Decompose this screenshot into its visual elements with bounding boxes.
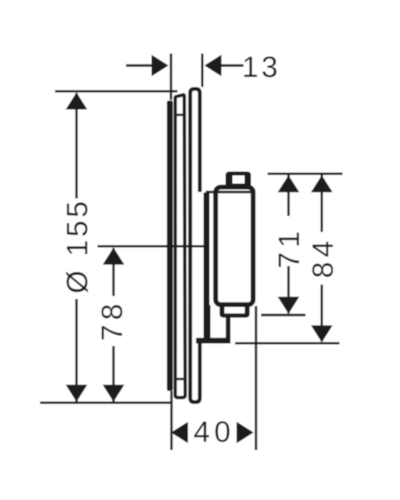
dim O155 top arrowhead (66, 93, 88, 110)
dim 71 top arrowhead (278, 175, 300, 192)
handle body (outlined box) (216, 187, 254, 304)
front sleeve (outlined box, right edge interrupted behind handle) (190, 89, 200, 402)
dim 40 left arrowhead (171, 422, 188, 444)
dim 40 right extension line (255, 306, 257, 450)
dim O155 bottom arrowhead (66, 385, 88, 402)
dim 84 bottom arrowhead (311, 325, 333, 342)
dim 71 bottom extension line (261, 314, 306, 316)
cartridge sleeve (solid bar behind handle) (204, 193, 210, 311)
dim 13 right arrowhead (204, 55, 221, 77)
handle bottom tab notch (224, 307, 244, 314)
label Ø 155 (66, 202, 88, 292)
dim 84 top arrowhead (311, 175, 333, 192)
dim 71 line upper segment (287, 175, 289, 216)
wall plate back disc (solid bar) (167, 101, 173, 392)
dim 78 line upper segment (112, 248, 114, 296)
label 84 (312, 242, 333, 277)
handle top tab (226, 172, 252, 188)
dim 78 line lower segment (112, 346, 114, 402)
dim 13 left arrowhead (152, 55, 169, 77)
dim 71 bottom arrowhead (278, 297, 300, 314)
dim 78 center extension line (98, 245, 169, 247)
dim O155 top extension line (55, 90, 178, 92)
dim 84 line upper segment (321, 175, 323, 232)
dim 78 bottom arrowhead (103, 385, 125, 402)
dim 40 left extension line (170, 391, 172, 450)
wall plate body (outlined escutcheon side profile) (175, 95, 185, 398)
dim O155 bottom extension line (40, 402, 172, 404)
cartridge bottom edge bar (196, 338, 230, 344)
dim 13 right tail line (221, 64, 244, 66)
label 78 (101, 305, 122, 340)
handle inner top line (206, 191, 252, 194)
dim 13 left extension line (170, 54, 172, 101)
dim O155 line lower segment (75, 299, 77, 402)
wall plate inner tick top (176, 114, 184, 116)
dim 13 right extension line (201, 54, 203, 88)
dim 40 right arrowhead (237, 422, 254, 444)
dim 84 bottom extension line (235, 342, 340, 344)
label 13 (244, 56, 276, 77)
dim 13 left tail line (126, 64, 152, 66)
handle top tab notch (233, 176, 245, 184)
cartridge bottom right descender (226, 313, 231, 343)
label 71 (279, 233, 299, 267)
wall plate inner tick bottom (176, 378, 185, 380)
handle bottom tab (220, 303, 250, 318)
cartridge lower part below handle (204, 305, 211, 344)
dim O155 line upper segment (75, 93, 77, 199)
center tick overlay across plate (168, 245, 204, 247)
dim 84 line lower segment (321, 285, 323, 342)
dim 78 top arrowhead (103, 248, 125, 265)
dim 71/84 top extension line (268, 173, 343, 175)
label 40 (194, 421, 229, 442)
dim 71 line lower segment (287, 266, 289, 313)
